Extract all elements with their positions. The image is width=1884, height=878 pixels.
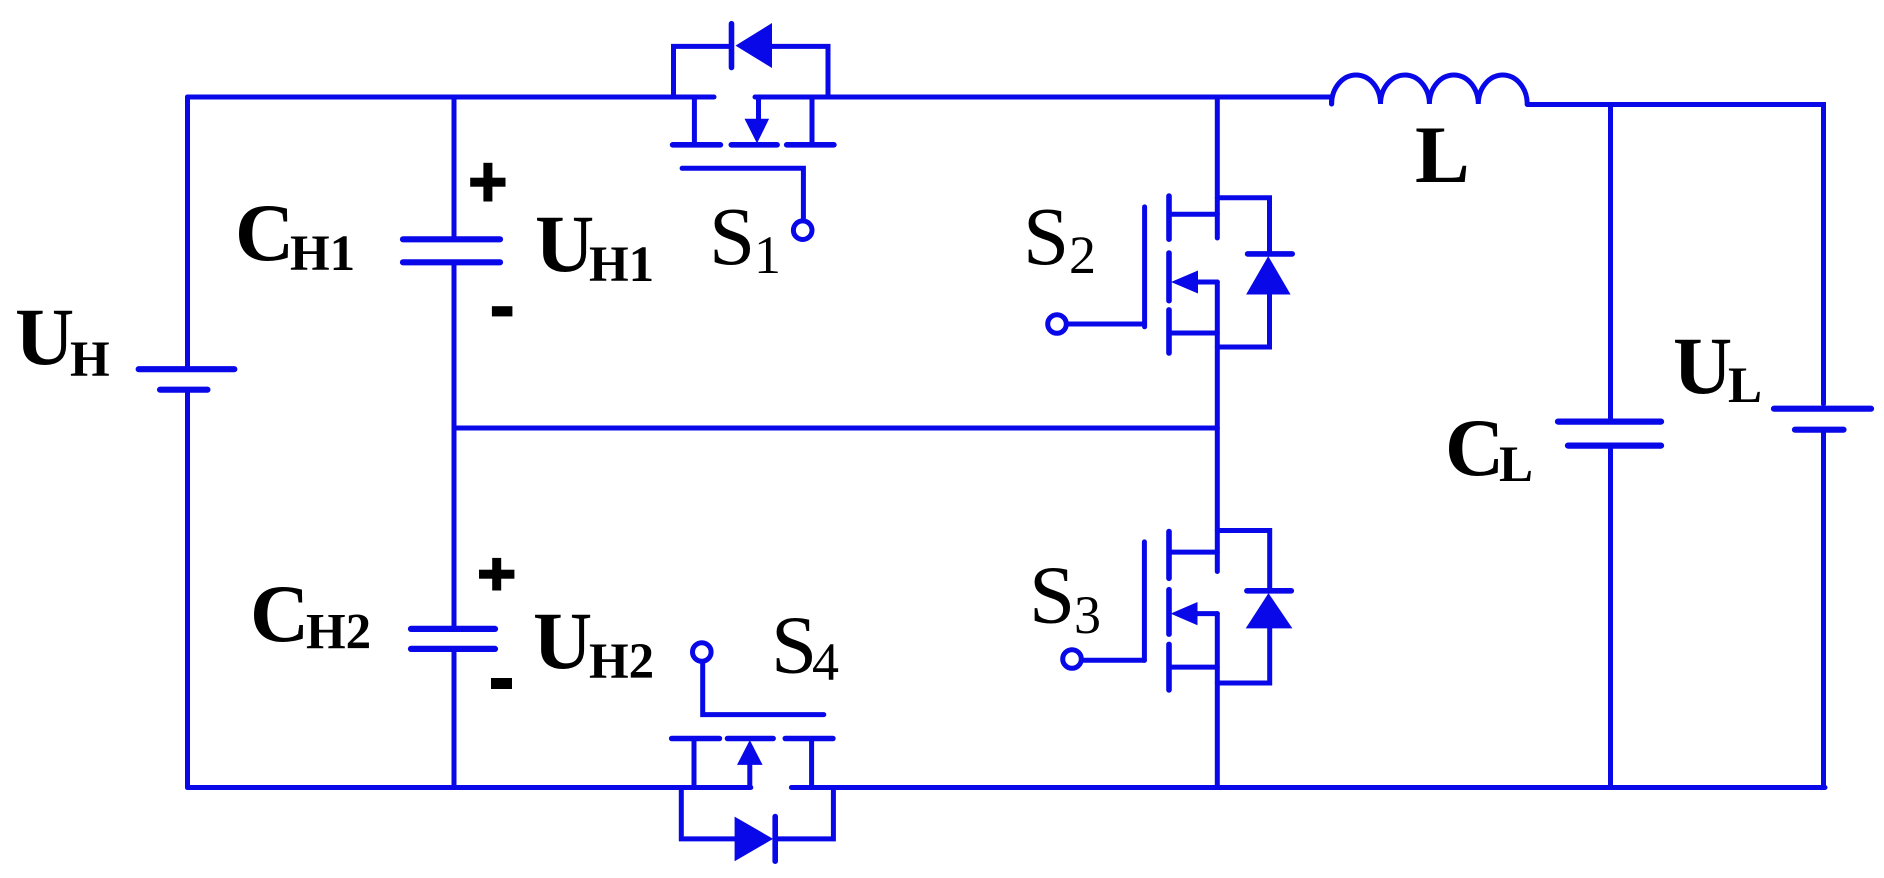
svg-text:L: L [1499,437,1533,493]
svg-text:C: C [250,568,309,659]
svg-text:H1: H1 [290,226,355,282]
svg-text:U: U [15,291,74,382]
svg-text:C: C [1445,402,1504,493]
svg-text:S: S [771,599,817,691]
svg-text:H1: H1 [589,237,654,293]
svg-text:3: 3 [1074,585,1101,645]
svg-text:U: U [535,198,594,289]
svg-text:4: 4 [812,632,839,692]
svg-text:H: H [70,332,110,388]
svg-text:U: U [533,595,592,686]
svg-text:H2: H2 [306,605,371,661]
svg-text:U: U [1673,320,1732,411]
svg-text:L: L [1728,358,1762,414]
svg-text:S: S [1029,549,1075,641]
svg-text:H2: H2 [589,634,654,690]
svg-text:L: L [1415,109,1470,200]
svg-text:C: C [235,187,294,278]
svg-text:1: 1 [754,225,781,285]
svg-text:S: S [709,190,755,282]
svg-text:S: S [1023,190,1069,282]
svg-text:2: 2 [1069,225,1096,285]
